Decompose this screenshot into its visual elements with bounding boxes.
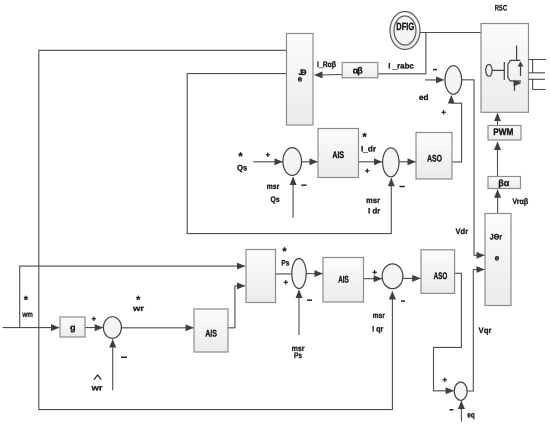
- svg-text:Ps: Ps: [294, 351, 302, 360]
- svg-text:*: *: [282, 246, 287, 258]
- machine DFIG: [390, 12, 420, 50]
- wire wr hat input arrow: [112, 340, 114, 391]
- wire PWM to RSC: [497, 113, 499, 125]
- wire inner loop msr I dr from JOe left output to row1 summing 2: [187, 74, 391, 234]
- block betaalpha: [488, 177, 521, 189]
- block AIS row2: [323, 258, 364, 303]
- block g: [60, 317, 85, 337]
- svg-text:+: +: [92, 315, 97, 324]
- block RSC converter: [481, 3, 529, 112]
- svg-text:Ps: Ps: [281, 258, 290, 267]
- svg-text:*: *: [362, 131, 367, 143]
- svg-text:+: +: [372, 268, 377, 277]
- label wr hat caret: [94, 375, 101, 380]
- svg-text:msr: msr: [373, 311, 385, 320]
- label minus Ps summing: [307, 299, 312, 301]
- svg-text:ed: ed: [419, 93, 428, 102]
- svg-text:g: g: [70, 323, 76, 333]
- wire S2 to ASO row1: [399, 161, 416, 163]
- wire ASO row2 output down to eq summing plus input: [434, 273, 462, 391]
- wire wm* branch up to Ps computation block: [20, 266, 245, 328]
- wire Ps summing to AIS row2: [306, 273, 322, 275]
- wire AIS row1 to S2: [359, 161, 382, 163]
- wire outer loop msr I qr from JOe left output down around to row2 summing: [39, 50, 393, 409]
- svg-text:Qs: Qs: [271, 195, 281, 204]
- wire JOr to betaalpha: [497, 190, 499, 214]
- RSC right side phase lines: [529, 60, 547, 90]
- block AIS row1: [318, 129, 359, 178]
- summing junction ed: [445, 66, 462, 95]
- block PWM: [488, 126, 521, 141]
- wire msr Qs input arrow: [292, 177, 294, 218]
- wire Iqr summing to ASO row2: [403, 277, 420, 279]
- svg-text:Qs: Qs: [237, 164, 248, 173]
- svg-text:AIS: AIS: [338, 275, 349, 286]
- wire AIS wr output up to Ps computation block: [228, 286, 245, 328]
- label minus S2: [399, 186, 404, 188]
- summing junction S1 Qs loop: [283, 148, 302, 176]
- svg-text:I _rabc: I _rabc: [388, 61, 414, 70]
- svg-text:+: +: [365, 167, 370, 176]
- svg-text:I dr: I dr: [368, 207, 380, 216]
- svg-text:wm: wm: [22, 310, 33, 319]
- summing junction Ps: [292, 259, 306, 289]
- svg-text:I_dr: I_dr: [361, 145, 376, 154]
- block alphabeta: [342, 63, 378, 78]
- label minus wr summing: [121, 356, 127, 358]
- svg-text:AIS: AIS: [332, 150, 344, 161]
- wire S1 to AIS row1: [301, 161, 317, 163]
- svg-text:βα: βα: [498, 178, 509, 188]
- svg-text:RSC: RSC: [495, 3, 508, 12]
- wire ed output Vdr to JOr: [462, 80, 485, 256]
- wire alphabeta to JOe with arrow: [315, 74, 343, 77]
- svg-text:e: e: [298, 75, 303, 84]
- summing junction wr: [103, 317, 121, 339]
- svg-text:+: +: [284, 278, 289, 287]
- svg-text:*: *: [238, 151, 243, 163]
- wire DFIG to RSC: [420, 32, 481, 34]
- wire ASO row1 output up into ed summing: [451, 96, 461, 162]
- svg-text:AIS: AIS: [205, 329, 217, 340]
- svg-text:wr: wr: [132, 304, 144, 313]
- wire betaalpha to PWM: [497, 142, 499, 177]
- svg-text:I qr: I qr: [372, 325, 383, 334]
- svg-text:+: +: [266, 150, 271, 159]
- label ed minus: [433, 69, 437, 71]
- wire AIS row2 to Iqr summing: [364, 278, 382, 280]
- block JOe: [287, 34, 314, 126]
- label minus eq: [450, 409, 454, 411]
- svg-text:msr: msr: [267, 182, 280, 191]
- svg-text:+: +: [441, 108, 446, 117]
- block Ps computation (unlabeled): [246, 250, 276, 303]
- wire ed minus input arrow: [425, 79, 444, 81]
- label minus S1: [301, 184, 306, 186]
- wire eq output Vqr up to JOr: [467, 270, 484, 392]
- wire I_rabc branch down to alphabeta block: [378, 33, 426, 74]
- svg-text:PWM: PWM: [493, 127, 513, 138]
- svg-text:*: *: [24, 294, 29, 306]
- wire g to wr summing: [85, 327, 103, 329]
- wire eq bottom input arrow: [460, 401, 462, 422]
- wire msr Ps input arrow: [298, 290, 300, 335]
- svg-text:I_Rαβ: I_Rαβ: [317, 60, 336, 69]
- summing junction eq: [454, 382, 467, 400]
- svg-text:Vrαβ: Vrαβ: [512, 197, 528, 206]
- wire Ps block to Ps summing: [276, 273, 293, 275]
- wire wm* input to g: [3, 327, 60, 329]
- wire Qs* input arrow: [253, 161, 282, 163]
- svg-text:JΘr: JΘr: [490, 232, 502, 241]
- label minus Iqr: [401, 300, 405, 302]
- block JOr: [485, 214, 511, 306]
- svg-text:ASO: ASO: [427, 153, 442, 164]
- IGBT symbol inside RSC: [486, 46, 524, 91]
- svg-text:ASO: ASO: [434, 271, 448, 282]
- svg-text:Vqr: Vqr: [479, 326, 492, 335]
- wire wr summing to AIS wr: [121, 327, 194, 329]
- svg-text:eq: eq: [467, 411, 475, 420]
- summing junction Iqr: [382, 264, 403, 289]
- svg-text:αβ: αβ: [353, 65, 364, 75]
- svg-text:msr: msr: [366, 196, 380, 205]
- svg-text:Vdr: Vdr: [456, 227, 469, 236]
- block AIS wr loop: [194, 309, 228, 352]
- svg-text:wr: wr: [90, 384, 102, 393]
- svg-text:e: e: [495, 254, 500, 263]
- svg-text:+: +: [442, 376, 447, 385]
- summing junction S2 Idr loop: [383, 148, 399, 177]
- block ASO row2: [421, 250, 455, 294]
- block ASO row1: [416, 133, 452, 180]
- svg-text:DFIG: DFIG: [396, 21, 414, 33]
